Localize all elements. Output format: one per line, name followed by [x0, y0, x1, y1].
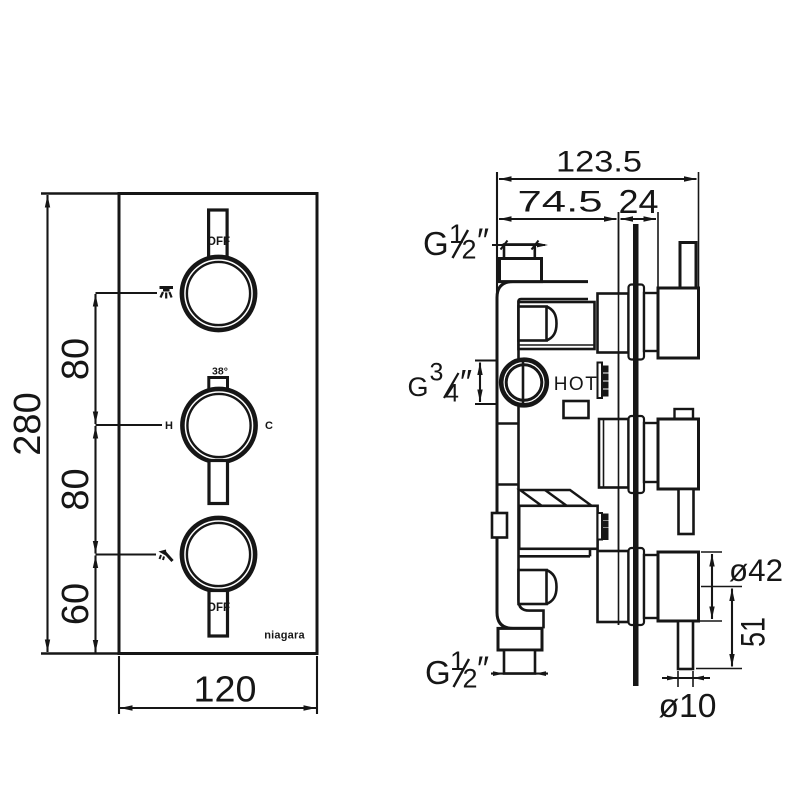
svg-text:60: 60 — [55, 583, 97, 625]
svg-text:G: G — [423, 225, 449, 262]
dim 24 line — [621, 218, 657, 220]
extension line right — [698, 172, 700, 288]
svg-text:280: 280 — [7, 392, 49, 455]
knob K1 ring — [182, 257, 255, 330]
adapter bottom — [644, 555, 658, 618]
lower box step — [519, 549, 590, 557]
upper domed plug — [519, 307, 557, 341]
lower valve box — [519, 506, 597, 549]
dim 123.5 line — [499, 178, 697, 180]
dim G3/4 extensions — [475, 359, 496, 361]
label G1/2 top — [423, 219, 489, 265]
dim o42 line — [711, 554, 713, 619]
outlet pipe bottom — [504, 650, 535, 674]
icon hand shower — [159, 550, 173, 562]
wall line — [633, 224, 639, 686]
knob K3 ring — [182, 518, 255, 591]
svg-text:120: 120 — [194, 669, 257, 710]
inlet pipe top — [504, 245, 535, 260]
svg-text:″: ″ — [460, 364, 472, 402]
outlet collar bottom — [498, 628, 542, 650]
dim 280 line — [46, 195, 48, 652]
mid partition lower — [497, 483, 520, 486]
lower domed plug — [519, 570, 557, 604]
middle cartridge neck — [599, 419, 629, 488]
lower cartridge neck — [598, 551, 629, 622]
leader hand shower — [96, 554, 157, 556]
svg-text:24: 24 — [619, 183, 659, 220]
svg-text:G: G — [425, 654, 451, 691]
svg-text:2: 2 — [463, 664, 478, 694]
flange top — [629, 285, 645, 360]
svg-text:niagara: niagara — [264, 630, 305, 642]
dim 74.5 line — [499, 218, 617, 220]
svg-text:3: 3 — [430, 359, 444, 387]
dim G1/2 bottom — [491, 671, 548, 676]
HOT port circle — [501, 359, 547, 406]
svg-text:51: 51 — [735, 617, 773, 647]
svg-text:H: H — [165, 420, 173, 432]
dim 120 extensions — [118, 656, 120, 714]
svg-text:4: 4 — [445, 380, 459, 408]
svg-text:″: ″ — [477, 650, 489, 688]
dim 51 line — [731, 589, 733, 667]
dim 280 extension bottom — [41, 652, 119, 654]
ribbed connector top — [598, 363, 608, 399]
upper cartridge neck — [598, 294, 629, 353]
extension line left — [496, 172, 498, 297]
knob K3 handle — [207, 591, 230, 637]
icon overhead shower — [160, 288, 174, 299]
svg-text:″: ″ — [477, 222, 489, 260]
knob K1 handle — [207, 210, 230, 257]
hatched section band — [520, 490, 592, 506]
knob K2 ring — [182, 389, 255, 462]
front view plate — [119, 194, 317, 654]
adapter top — [644, 293, 658, 351]
knob side K2 rod — [679, 489, 694, 534]
dim o42 extensions — [701, 551, 722, 553]
svg-text:2: 2 — [462, 235, 477, 265]
knob side K3 — [658, 552, 699, 621]
dim o10 extensions — [677, 671, 679, 687]
extension line 74.5 overlay — [618, 212, 620, 625]
knob side K2 tab — [675, 409, 694, 419]
knob side K3 rod — [678, 621, 693, 669]
svg-text:38°: 38° — [212, 366, 228, 378]
svg-text:HOT: HOT — [554, 374, 599, 395]
svg-text:80: 80 — [55, 338, 97, 380]
svg-text:123.5: 123.5 — [556, 146, 642, 179]
svg-text:OFF: OFF — [207, 602, 230, 614]
adapter middle — [644, 423, 658, 482]
left lug — [492, 513, 507, 538]
flange middle — [629, 416, 645, 493]
leader H row — [96, 424, 163, 426]
label G3/4 — [408, 359, 473, 408]
svg-text:C: C — [265, 420, 273, 432]
extension line 24 — [657, 212, 659, 288]
upper valve box — [519, 302, 595, 349]
dim 280 extension top — [41, 192, 119, 194]
knob side K1 — [658, 288, 699, 358]
svg-text:ø42: ø42 — [729, 552, 783, 588]
upper valve box inner line — [519, 344, 595, 346]
dim G3/4 line — [479, 363, 481, 403]
svg-text:OFF: OFF — [207, 236, 230, 248]
knob side K1 handle — [680, 243, 696, 289]
label G1/2 bottom — [425, 646, 489, 694]
svg-text:80: 80 — [55, 468, 97, 510]
body bracket inner — [519, 299, 589, 628]
body bracket outer — [497, 282, 588, 629]
svg-text:G: G — [408, 372, 429, 402]
inlet collar top — [500, 259, 542, 282]
dim o10 line — [662, 676, 710, 681]
flange bottom — [629, 548, 645, 625]
leader shower head — [96, 292, 158, 294]
knob K2 tab — [209, 366, 228, 390]
ribbed connector bottom — [598, 513, 608, 540]
extension line 74.5 — [618, 212, 620, 625]
knob K2 lower handle — [209, 461, 228, 504]
mid partition upper — [497, 422, 520, 425]
dim 120 line — [120, 707, 316, 709]
dim G1/2 top line — [492, 241, 548, 250]
dim 51 extensions — [701, 586, 742, 588]
svg-text:74.5: 74.5 — [518, 186, 603, 219]
svg-text:ø10: ø10 — [659, 687, 717, 724]
cartridge nut — [564, 401, 589, 418]
dim chain line 80-80-60 — [94, 294, 96, 653]
knob side K2 — [658, 419, 699, 489]
